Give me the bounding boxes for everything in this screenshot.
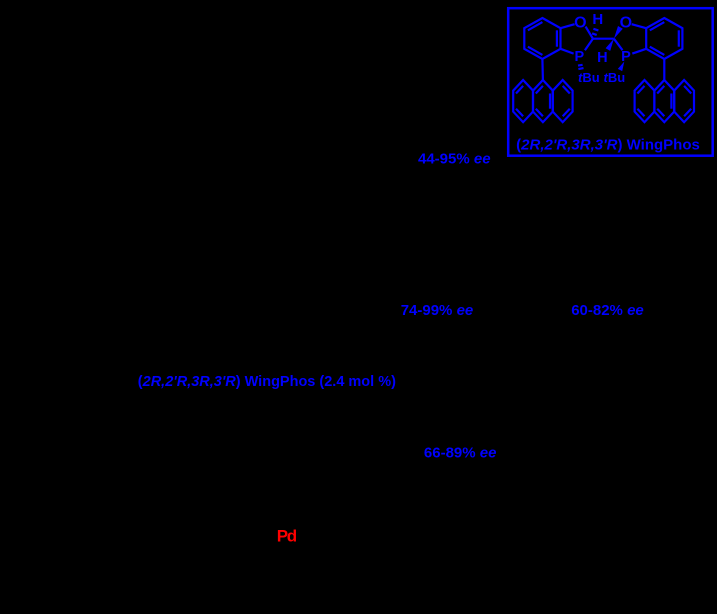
svg-text:44-95% ee: 44-95% ee <box>418 151 491 168</box>
svg-text:P: P <box>621 49 631 65</box>
svg-text:60-82% ee: 60-82% ee <box>571 302 644 319</box>
svg-text:O: O <box>620 15 632 32</box>
bond benzene-anthracenyl right <box>663 59 665 80</box>
svg-text:H: H <box>597 50 607 66</box>
svg-text:Pd: Pd <box>277 526 297 545</box>
anthracenyl group right <box>635 80 655 122</box>
hashed wedge P-tBu (left) <box>578 64 583 67</box>
bold wedge C2'-O' <box>614 26 623 39</box>
benzene ring right <box>646 18 682 59</box>
svg-text:O: O <box>574 15 586 32</box>
svg-text:(2R,2'R,3R,3'R) WingPhos: (2R,2'R,3R,3'R) WingPhos <box>516 137 700 154</box>
solid wedge C2'-H' <box>606 39 614 51</box>
svg-text:tBu: tBu <box>604 70 626 85</box>
svg-text:P: P <box>574 49 584 65</box>
svg-text:66-89% ee: 66-89% ee <box>424 444 497 461</box>
oxaphosphole ring right bonds <box>632 24 647 28</box>
bond benzene-anthracenyl left <box>541 59 544 80</box>
oxaphosphole ring left bonds <box>561 24 575 28</box>
anthracenyl group left <box>513 80 533 122</box>
central C2-C2' bond <box>593 38 614 40</box>
svg-text:74-99% ee: 74-99% ee <box>401 302 474 319</box>
svg-text:(2R,2'R,3R,3'R) WingPhos (2.4: (2R,2'R,3R,3'R) WingPhos (2.4 mol %) <box>138 374 396 390</box>
solid wedge P'-tBu' <box>618 62 625 72</box>
svg-text:tBu: tBu <box>578 70 600 85</box>
ligand box frame <box>508 8 713 156</box>
hashed wedge C2-H (left) <box>592 33 597 35</box>
benzene ring left <box>524 18 560 59</box>
svg-text:H: H <box>592 11 603 28</box>
